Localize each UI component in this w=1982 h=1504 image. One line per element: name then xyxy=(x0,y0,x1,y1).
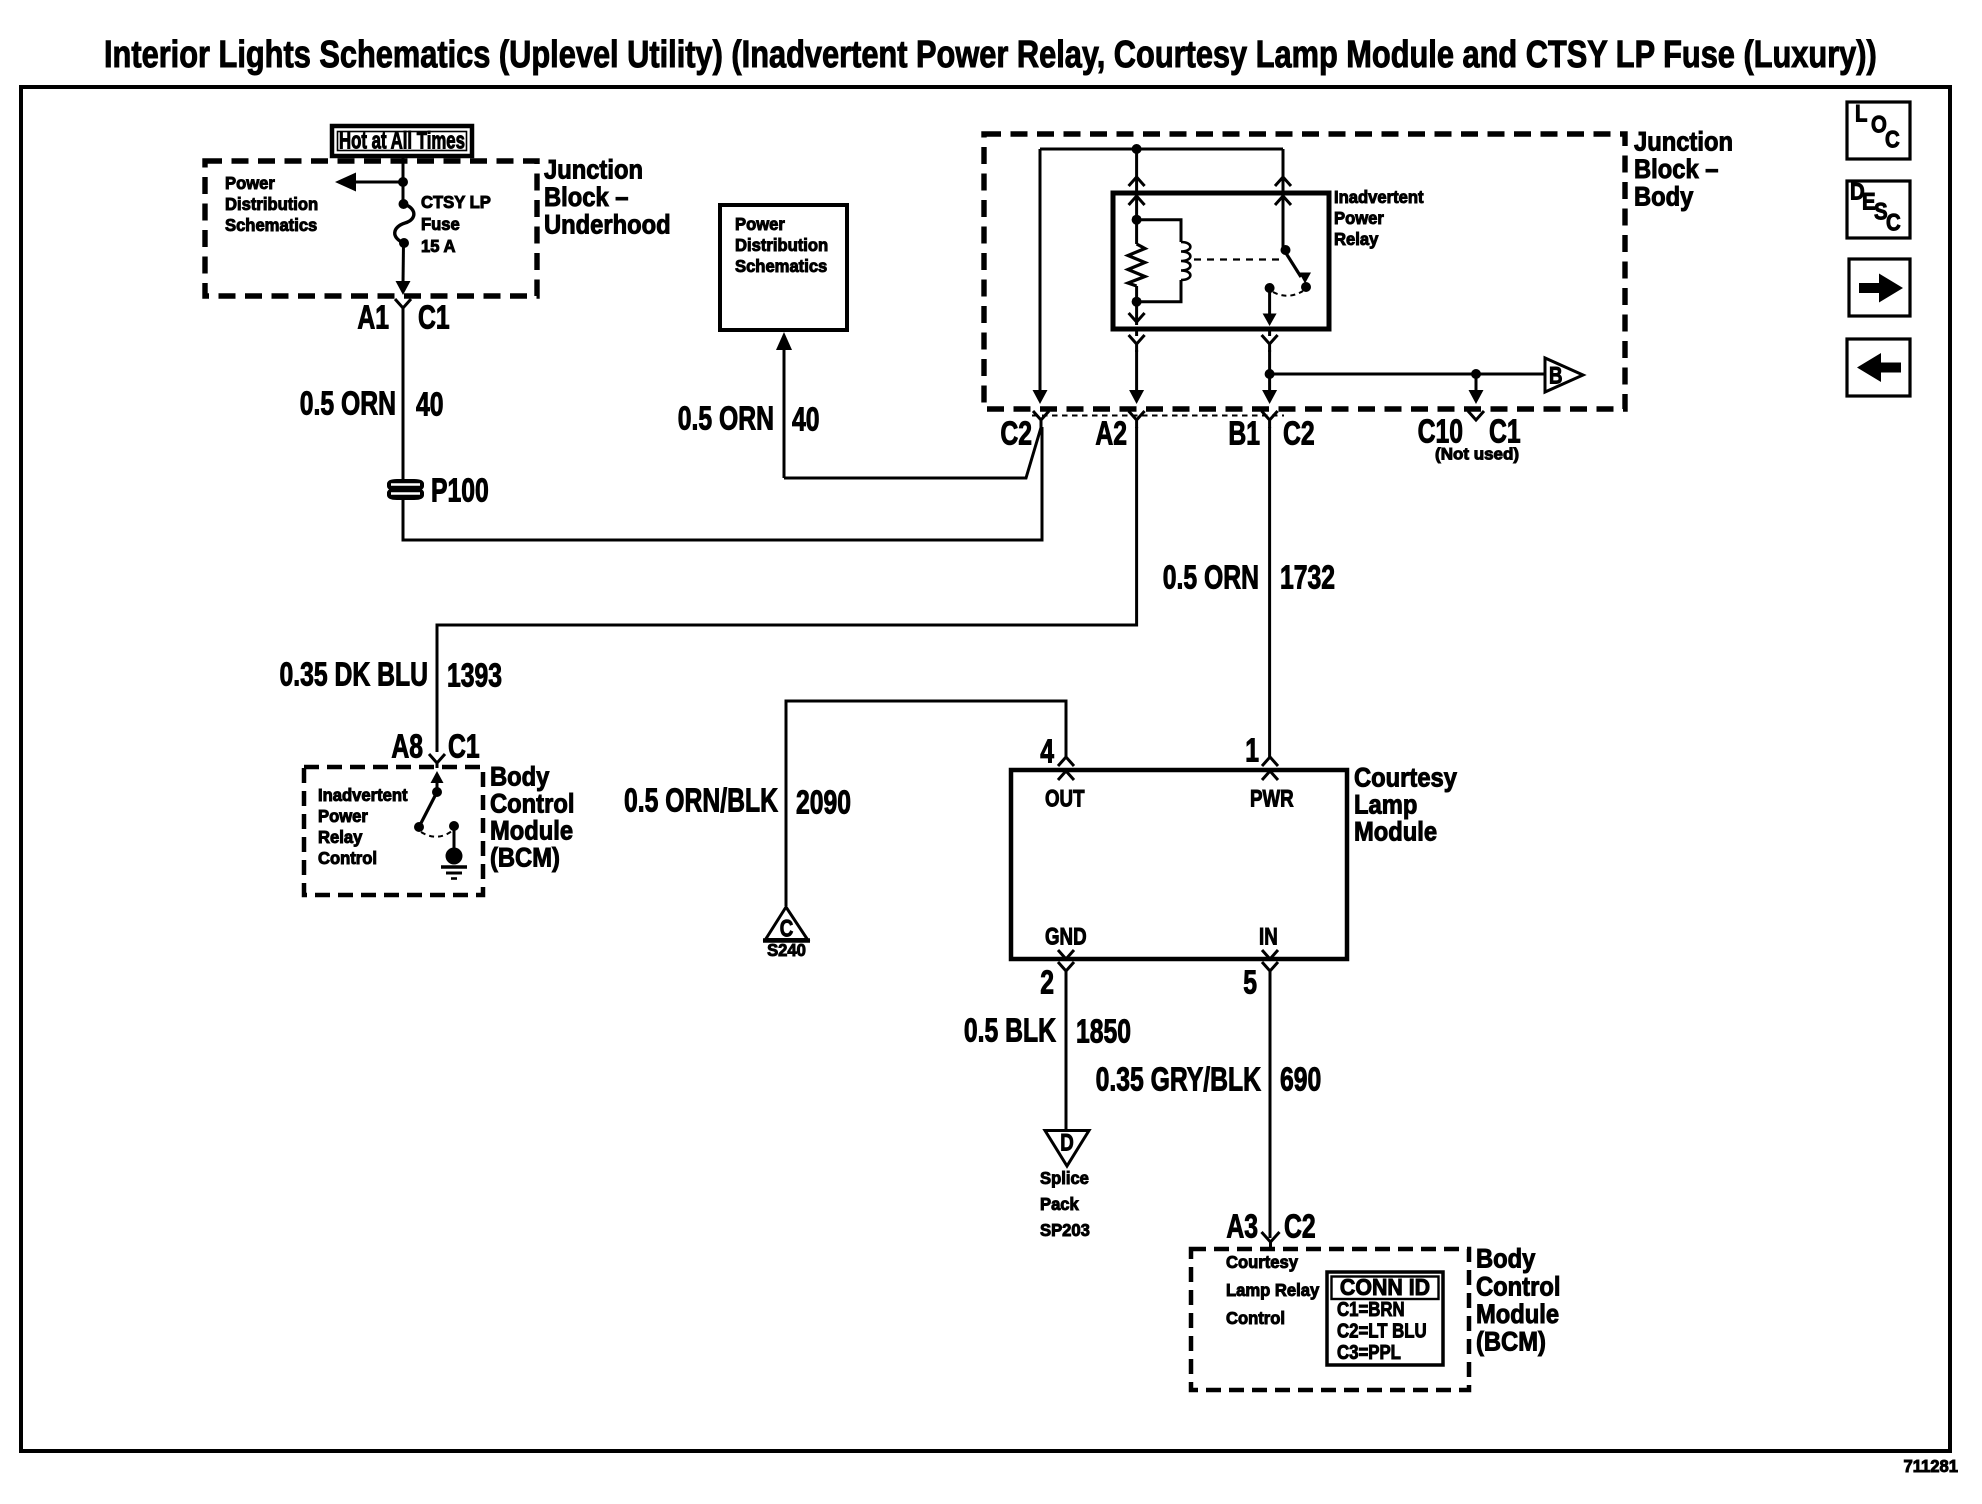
svg-text:Courtesy: Courtesy xyxy=(1354,763,1457,793)
svg-text:Distribution: Distribution xyxy=(225,195,318,214)
node fuse top xyxy=(398,177,408,187)
power distribution schematics box xyxy=(720,205,847,330)
svg-text:Body: Body xyxy=(1634,182,1693,212)
svg-text:Courtesy: Courtesy xyxy=(1226,1253,1298,1272)
wire bus to C2 exit xyxy=(1039,149,1042,392)
courtesy lamp module box xyxy=(1011,770,1347,959)
bus wire top xyxy=(1040,148,1283,151)
svg-text:Control: Control xyxy=(318,849,377,868)
svg-text:0.35 GRY/BLK: 0.35 GRY/BLK xyxy=(1096,1062,1261,1098)
bcm switch blade xyxy=(419,792,437,827)
module pin 1 xyxy=(1262,757,1278,766)
wire 0.5 ORN BLK 2090 xyxy=(786,701,1066,906)
svg-text:L: L xyxy=(1855,100,1867,127)
svg-text:0.5 ORN/BLK: 0.5 ORN/BLK xyxy=(624,783,778,819)
relay bottom right pin xyxy=(1268,329,1271,336)
svg-text:C1: C1 xyxy=(448,729,480,765)
label box Hot at All Times xyxy=(332,126,472,156)
connector A2 xyxy=(1129,411,1145,428)
svg-text:C2: C2 xyxy=(1283,416,1315,452)
svg-text:A8: A8 xyxy=(391,729,423,765)
svg-text:C: C xyxy=(780,915,794,942)
svg-text:Relay: Relay xyxy=(1334,230,1379,249)
node B1 branch xyxy=(1265,369,1275,379)
connector B1 C2 xyxy=(1262,411,1278,428)
svg-text:Schematics: Schematics xyxy=(735,257,827,276)
svg-text:Splice: Splice xyxy=(1040,1169,1089,1188)
svg-text:C3=PPL: C3=PPL xyxy=(1337,1340,1401,1363)
svg-text:IN: IN xyxy=(1259,923,1278,950)
splice S240 xyxy=(766,907,808,940)
svg-text:Junction: Junction xyxy=(544,155,643,185)
nav icon back arrow xyxy=(1847,339,1910,396)
svg-text:Module: Module xyxy=(1354,817,1437,847)
page connector B xyxy=(1545,358,1583,392)
svg-text:Pack: Pack xyxy=(1040,1195,1079,1214)
svg-text:Power: Power xyxy=(225,174,275,193)
relay switch arc xyxy=(1273,291,1303,296)
conn id table xyxy=(1327,1272,1443,1365)
svg-text:40: 40 xyxy=(792,402,820,438)
svg-text:0.5 ORN: 0.5 ORN xyxy=(300,386,396,422)
svg-text:Control: Control xyxy=(1476,1272,1560,1302)
relay bottom left pin xyxy=(1129,313,1145,322)
svg-text:40: 40 xyxy=(416,387,444,423)
wire C10 drop xyxy=(1475,374,1478,392)
svg-text:Module: Module xyxy=(1476,1300,1559,1330)
connector A8 C1 xyxy=(429,754,445,768)
svg-text:Module: Module xyxy=(490,816,573,846)
svg-text:Schematics: Schematics xyxy=(225,216,317,235)
wire fuse to connector xyxy=(402,243,406,284)
svg-text:B: B xyxy=(1549,362,1563,389)
svg-text:A3: A3 xyxy=(1226,1209,1258,1245)
svg-text:C: C xyxy=(1886,209,1901,236)
svg-text:Block –: Block – xyxy=(544,183,628,213)
relay link dashed xyxy=(1194,258,1281,260)
svg-text:D: D xyxy=(1060,1129,1074,1156)
wire to fuse xyxy=(402,182,405,204)
connector C10 not used xyxy=(1468,411,1484,420)
svg-text:Fuse: Fuse xyxy=(421,215,460,234)
wire to page connector B xyxy=(1270,373,1545,376)
bcm switch arrow xyxy=(436,777,439,792)
svg-text:Body: Body xyxy=(490,762,549,792)
svg-text:Underhood: Underhood xyxy=(544,210,671,240)
bcm ground xyxy=(449,821,459,831)
svg-text:Power: Power xyxy=(1334,209,1384,228)
svg-text:Lamp Relay: Lamp Relay xyxy=(1226,1281,1320,1300)
connector A3 C2 xyxy=(1262,1232,1280,1249)
relay coil xyxy=(1137,220,1181,242)
svg-text:Relay: Relay xyxy=(318,828,363,847)
svg-text:B1: B1 xyxy=(1228,416,1260,452)
relay coil branch wire xyxy=(1135,197,1138,244)
body control module box xyxy=(304,767,483,895)
svg-text:15 A: 15 A xyxy=(421,237,455,256)
wire 0.35 GRY BLK 690 xyxy=(1269,979,1272,1238)
arrow into power distribution box xyxy=(776,332,792,350)
svg-text:SP203: SP203 xyxy=(1040,1221,1090,1240)
junction block underhood box xyxy=(205,161,537,296)
svg-text:(BCM): (BCM) xyxy=(1476,1327,1546,1357)
svg-text:1: 1 xyxy=(1245,733,1259,769)
nav icon forward arrow xyxy=(1849,259,1910,316)
wire 0.5 ORN 40 to C2 xyxy=(784,428,1041,479)
svg-text:4: 4 xyxy=(1040,734,1054,770)
relay switch output xyxy=(1265,283,1275,293)
svg-text:CTSY LP: CTSY LP xyxy=(421,193,491,212)
fuse CTSY LP 15A xyxy=(399,199,409,209)
wire P100 to junction block body C2 xyxy=(403,427,1042,540)
svg-text:5: 5 xyxy=(1243,965,1257,1001)
svg-text:2090: 2090 xyxy=(796,785,851,821)
svg-text:(Not used): (Not used) xyxy=(1435,445,1519,464)
svg-text:S240: S240 xyxy=(767,941,806,960)
module pin 5 xyxy=(1262,950,1278,959)
nav icon DESC xyxy=(1847,181,1910,238)
svg-text:A2: A2 xyxy=(1095,416,1127,452)
svg-text:Inadvertent: Inadvertent xyxy=(1334,188,1424,207)
svg-text:C1=BRN: C1=BRN xyxy=(1337,1297,1405,1320)
svg-text:C2: C2 xyxy=(1284,1209,1316,1245)
nav icon LOC xyxy=(1847,102,1910,159)
svg-text:PWR: PWR xyxy=(1250,785,1294,812)
svg-text:OUT: OUT xyxy=(1045,785,1085,812)
junction block body box xyxy=(984,134,1625,409)
svg-text:1732: 1732 xyxy=(1280,560,1335,596)
svg-text:Lamp: Lamp xyxy=(1354,790,1417,820)
svg-text:Power: Power xyxy=(735,215,785,234)
node C10 branch xyxy=(1471,369,1481,379)
svg-text:C2=LT BLU: C2=LT BLU xyxy=(1337,1319,1427,1342)
svg-text:A1: A1 xyxy=(357,300,389,336)
relay pin top left xyxy=(1135,149,1138,193)
svg-text:Body: Body xyxy=(1476,1244,1535,1274)
node bus junction xyxy=(1132,144,1142,154)
svg-text:GND: GND xyxy=(1045,923,1087,950)
relay switch pivot xyxy=(1282,197,1285,250)
connector C2 left xyxy=(1033,411,1049,428)
svg-text:Power: Power xyxy=(318,807,368,826)
relay resistor xyxy=(1128,244,1145,286)
wire 0.5 BLK 1850 xyxy=(1065,979,1068,1129)
relay switch blade xyxy=(1284,250,1301,277)
connector face line xyxy=(1032,415,1284,417)
svg-text:Block –: Block – xyxy=(1634,155,1718,185)
connector A1 C1 xyxy=(395,299,411,316)
svg-text:Distribution: Distribution xyxy=(735,236,828,255)
svg-text:C: C xyxy=(1885,126,1900,153)
module pin 4 xyxy=(1058,757,1074,766)
wire 0.5 ORN 1732 xyxy=(1268,427,1271,757)
relay U1 box xyxy=(1113,193,1329,329)
svg-text:C1: C1 xyxy=(418,300,450,336)
wire 0.5 ORN 40 left xyxy=(402,316,405,480)
svg-text:0.5 ORN: 0.5 ORN xyxy=(678,401,774,437)
svg-text:C2: C2 xyxy=(1000,416,1032,452)
svg-text:0.5 BLK: 0.5 BLK xyxy=(964,1013,1056,1049)
wire from hot feed xyxy=(402,156,405,182)
svg-text:P100: P100 xyxy=(431,473,489,509)
svg-text:1393: 1393 xyxy=(447,658,502,694)
svg-text:CONN ID: CONN ID xyxy=(1340,1274,1430,1300)
svg-text:Hot at All Times: Hot at All Times xyxy=(339,128,465,155)
svg-text:1850: 1850 xyxy=(1076,1014,1131,1050)
svg-text:Interior Lights Schematics (Up: Interior Lights Schematics (Uplevel Util… xyxy=(104,34,1877,76)
svg-text:Control: Control xyxy=(1226,1309,1285,1328)
svg-text:0.35 DK BLU: 0.35 DK BLU xyxy=(280,657,428,693)
relay pin top right xyxy=(1282,149,1285,193)
svg-text:Junction: Junction xyxy=(1634,127,1733,157)
svg-text:711281: 711281 xyxy=(1903,1457,1958,1476)
body control module 2 box xyxy=(1191,1249,1469,1390)
svg-text:(BCM): (BCM) xyxy=(490,843,560,873)
wire 0.35 DK BLU 1393 xyxy=(437,427,1137,752)
svg-text:0.5 ORN: 0.5 ORN xyxy=(1163,560,1259,596)
svg-text:Inadvertent: Inadvertent xyxy=(318,786,408,805)
arrow to power distribution xyxy=(350,181,403,184)
svg-text:Control: Control xyxy=(490,789,574,819)
module pin 2 xyxy=(1058,950,1074,959)
grommet P100 xyxy=(387,479,424,491)
svg-text:2: 2 xyxy=(1040,965,1054,1001)
bcm switch arc xyxy=(421,831,452,837)
splice pack D xyxy=(1045,1131,1089,1167)
svg-text:690: 690 xyxy=(1280,1062,1321,1098)
